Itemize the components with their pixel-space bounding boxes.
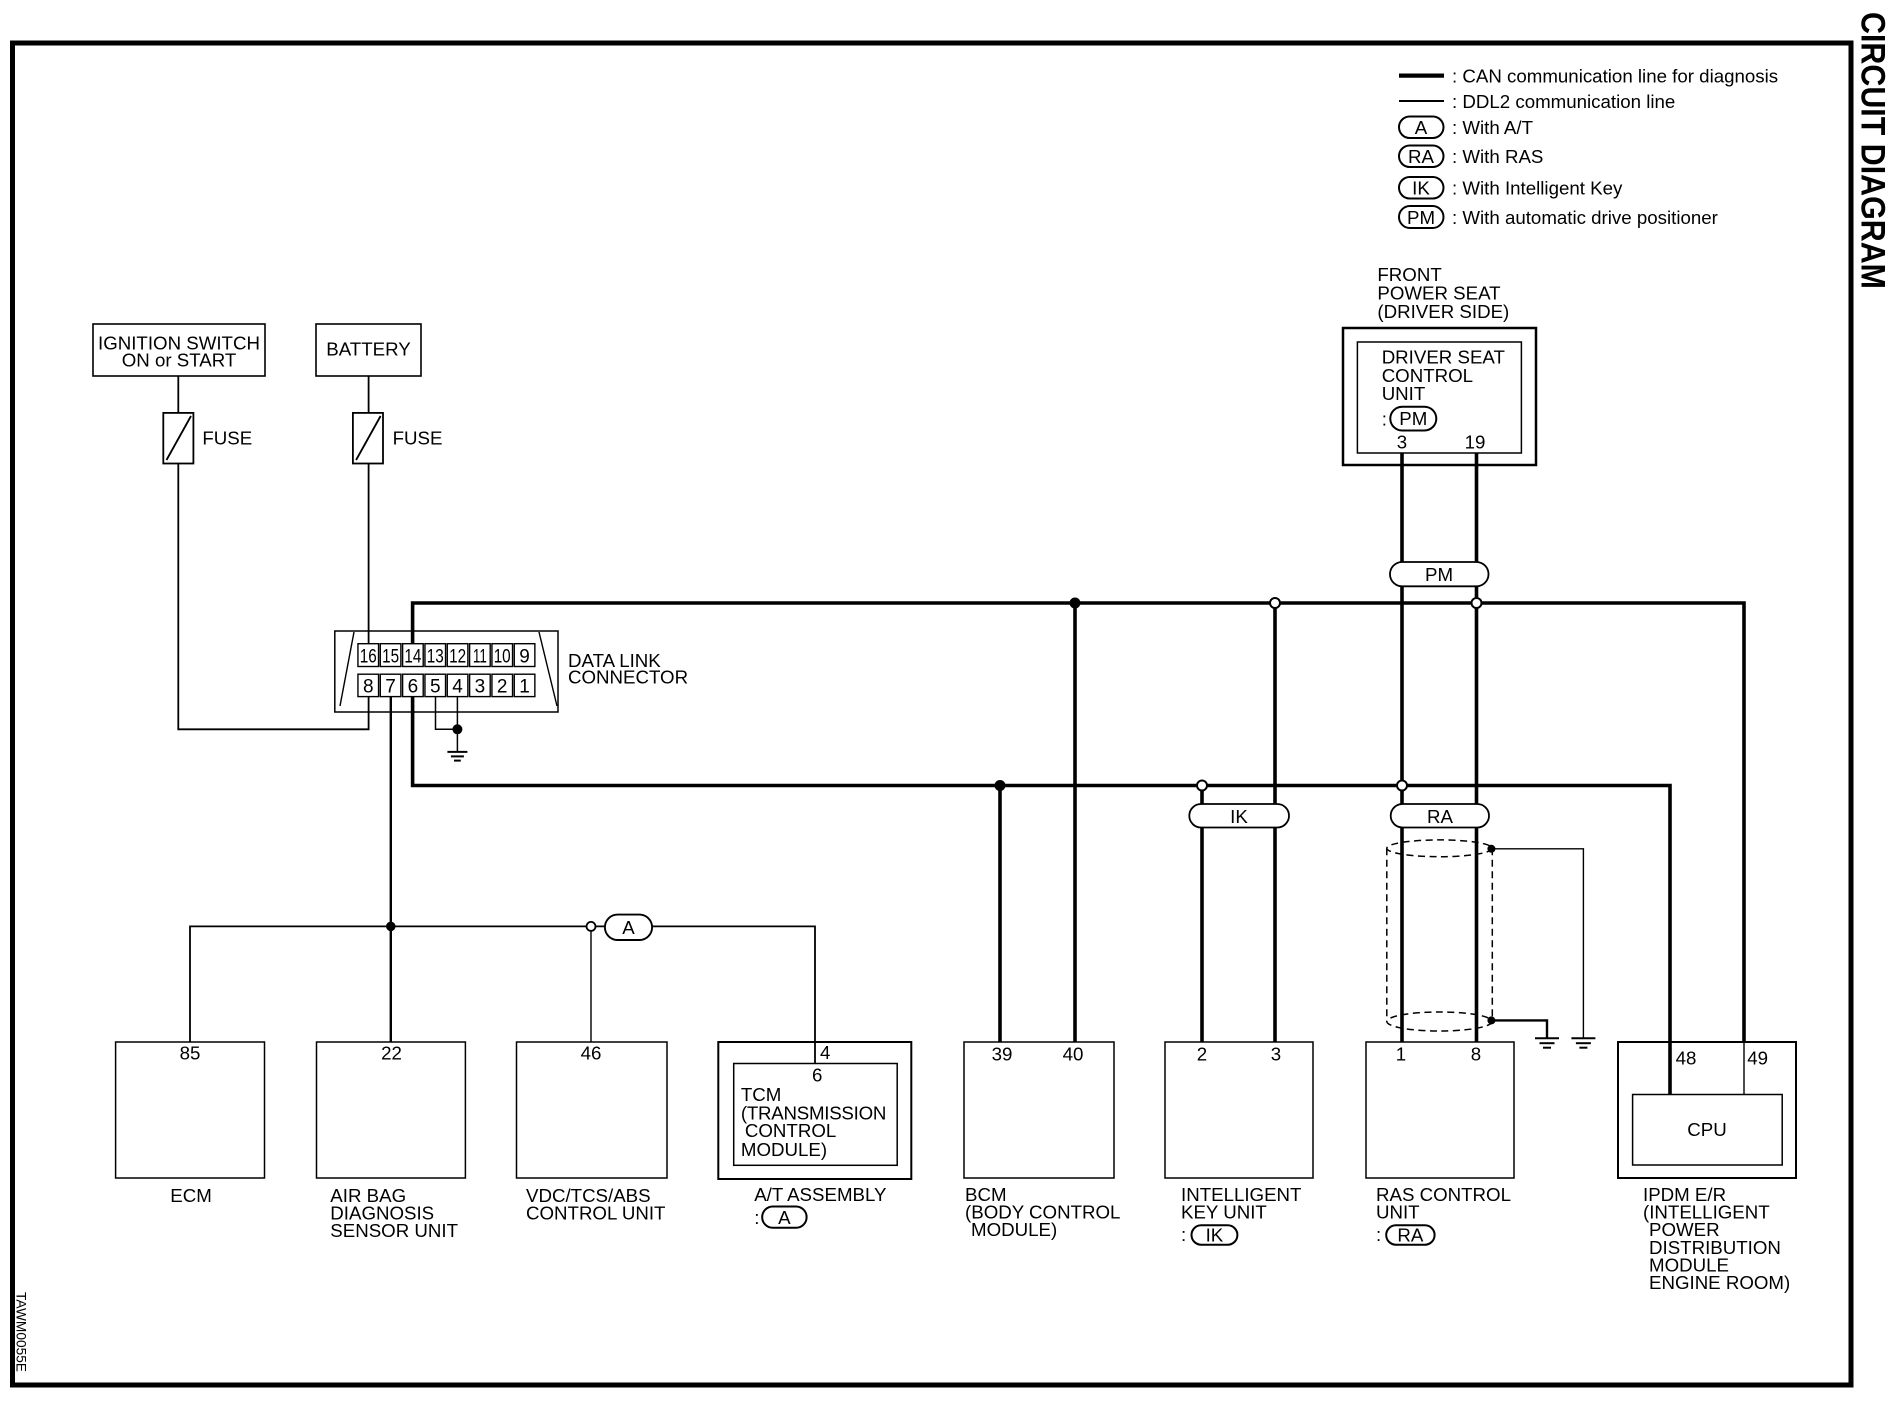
wire fuse2 down to DLC pin 16 [368, 464, 370, 644]
svg-text:PM: PM [1399, 408, 1427, 429]
shield top drain dot [1487, 845, 1495, 853]
svg-text:UNIT: UNIT [1376, 1202, 1420, 1223]
svg-text:: DDL2 communication line: : DDL2 communication line [1452, 91, 1675, 112]
front power seat outer box [1343, 328, 1536, 465]
svg-text:10: 10 [494, 646, 511, 667]
svg-text:IK: IK [1230, 806, 1248, 827]
svg-text:A: A [622, 917, 635, 938]
legend IK pill [1399, 177, 1444, 199]
DLC pin cells bottom row [358, 674, 535, 696]
wire intelligent key pin 3 [1273, 603, 1277, 1042]
svg-text:: With Intelligent Key: : With Intelligent Key [1452, 178, 1623, 199]
svg-text:11: 11 [473, 646, 487, 667]
svg-text:MODULE): MODULE) [971, 1219, 1057, 1240]
svg-text:CONTROL UNIT: CONTROL UNIT [526, 1203, 665, 1224]
svg-text:TAWM0055E: TAWM0055E [14, 1292, 29, 1372]
wire ignition to fuse [177, 376, 179, 413]
svg-text::: : [1181, 1224, 1186, 1245]
svg-text:ECM: ECM [170, 1185, 212, 1206]
open circle upper bus x1275 [1270, 598, 1280, 608]
svg-text:1: 1 [519, 676, 530, 697]
svg-text:A: A [1415, 117, 1428, 138]
svg-text:4: 4 [452, 676, 463, 697]
svg-text:13: 13 [427, 646, 444, 667]
svg-text:5: 5 [430, 676, 441, 697]
legend DDL2 line sample [1399, 100, 1444, 102]
junction dot upper bus x1075 [1070, 598, 1081, 609]
wire fuse1 down, right, up to DLC pin 8 [178, 464, 368, 730]
svg-text:14: 14 [404, 646, 421, 667]
ignition switch box [93, 324, 265, 376]
IPDM box [1618, 1042, 1796, 1178]
wire IPDM pin 48 to CPU [1668, 1042, 1672, 1095]
svg-text::: : [1376, 1224, 1381, 1245]
DLC pin numbers top row [360, 646, 530, 667]
ECM box [116, 1042, 265, 1178]
svg-text:4: 4 [820, 1042, 830, 1063]
svg-text:UNIT: UNIT [1382, 383, 1426, 404]
svg-text::: : [754, 1207, 759, 1228]
svg-text:12: 12 [449, 646, 466, 667]
wire BCM pin 39 [998, 786, 1002, 1043]
svg-text:40: 40 [1063, 1044, 1084, 1065]
PM pill on seat wires [1390, 562, 1489, 586]
svg-text:19: 19 [1465, 431, 1486, 452]
svg-text:A: A [778, 1207, 791, 1228]
svg-text:6: 6 [812, 1064, 822, 1085]
DLC pin 4 wire to ground [456, 697, 458, 752]
svg-text:(DRIVER SIDE): (DRIVER SIDE) [1377, 301, 1509, 322]
svg-text:39: 39 [992, 1044, 1013, 1065]
DDL2 line: ECM up, right to A pill, right, down to TCM pin 4 [190, 926, 605, 1042]
svg-text:A/T ASSEMBLY: A/T ASSEMBLY [754, 1184, 887, 1205]
legend PM pill [1399, 206, 1444, 228]
svg-text:1: 1 [1396, 1044, 1406, 1065]
shield cylinder around RAS wires [1387, 840, 1493, 1031]
A pill under A/T [762, 1207, 806, 1228]
wire VDC pin 46 [590, 926, 592, 1042]
ground for top drain [1571, 1038, 1595, 1048]
shield top drain wire [1491, 849, 1583, 1038]
svg-text:22: 22 [381, 1043, 402, 1064]
battery box [316, 324, 421, 376]
DLC pin cells top row [358, 644, 535, 667]
wire BCM pin 40 [1073, 603, 1077, 1042]
svg-text:IK: IK [1206, 1225, 1224, 1246]
upper CAN bus: DLC pin 14 up, right, down to IPDM pin 49 [413, 603, 1744, 1042]
DLC right slant [539, 632, 557, 706]
fuse F2 [353, 413, 383, 464]
svg-text::: : [1382, 409, 1387, 430]
svg-text:: With automatic drive positio: : With automatic drive positioner [1452, 207, 1718, 228]
svg-text:KEY UNIT: KEY UNIT [1181, 1202, 1267, 1223]
svg-text:48: 48 [1676, 1048, 1697, 1069]
wire IPDM pin 49 to CPU [1743, 1042, 1745, 1095]
svg-text:RA: RA [1397, 1225, 1423, 1246]
svg-text:IK: IK [1412, 178, 1430, 199]
shield bottom drain dot [1487, 1016, 1495, 1024]
RA pill under RAS [1386, 1225, 1434, 1244]
svg-text:ENGINE ROOM): ENGINE ROOM) [1649, 1272, 1790, 1293]
legend A pill [1399, 117, 1444, 139]
svg-text:CIRCUIT DIAGRAM: CIRCUIT DIAGRAM [1854, 12, 1892, 289]
wire DLC pin 7 to air bag pin 22 [390, 697, 392, 1042]
svg-text:ON or START: ON or START [122, 350, 237, 371]
intelligent key box [1165, 1042, 1313, 1178]
PM pill in seat box [1390, 407, 1436, 431]
open circle DDL2 x591 [587, 922, 596, 931]
TCM box [734, 1064, 898, 1166]
data link connector outline [335, 631, 558, 712]
svg-text:6: 6 [408, 676, 419, 697]
ground for bottom drain [1535, 1038, 1559, 1048]
legend CAN line sample [1399, 73, 1444, 77]
A/T assembly box [718, 1042, 911, 1179]
wire seat pin 19 to RAS pin 8 [1475, 453, 1479, 1042]
BCM box [964, 1042, 1114, 1178]
IK pill on key wires [1189, 804, 1289, 828]
svg-text:PM: PM [1425, 564, 1453, 585]
svg-text:85: 85 [180, 1043, 201, 1064]
svg-text:MODULE): MODULE) [741, 1139, 827, 1160]
svg-text:BATTERY: BATTERY [326, 339, 411, 360]
svg-text:15: 15 [382, 646, 399, 667]
svg-text:PM: PM [1407, 207, 1435, 228]
lower CAN bus: DLC pin 6 down, right, down to IPDM pin 48 [413, 697, 1670, 1042]
fuse F1 [163, 413, 193, 464]
air bag box [317, 1042, 466, 1178]
svg-text:RA: RA [1408, 146, 1434, 167]
svg-text:3: 3 [1271, 1044, 1281, 1065]
CPU box [1633, 1095, 1783, 1166]
svg-text:CONNECTOR: CONNECTOR [568, 667, 688, 688]
svg-text:: With RAS: : With RAS [1452, 146, 1543, 167]
svg-text:8: 8 [1471, 1044, 1481, 1065]
svg-text:RA: RA [1427, 806, 1453, 827]
RA pill on RAS wires [1391, 804, 1489, 828]
svg-text:16: 16 [360, 646, 377, 667]
svg-text:: CAN communication line for d: : CAN communication line for diagnosis [1452, 65, 1778, 86]
shield bottom drain wire [1491, 1020, 1547, 1037]
svg-text:3: 3 [1397, 431, 1407, 452]
A pill on DDL2 [605, 915, 652, 940]
VDC box [517, 1042, 668, 1178]
svg-text:2: 2 [1197, 1044, 1207, 1065]
DLC pin 5 wire to ground [436, 697, 458, 730]
wire battery to fuse [368, 376, 370, 413]
RAS box [1366, 1042, 1514, 1178]
svg-text:8: 8 [363, 676, 374, 697]
legend RA pill [1399, 146, 1444, 168]
DLC pin numbers bottom row [363, 676, 530, 697]
open circle upper bus x1476 [1472, 598, 1482, 608]
junction dot lower bus x1000 [995, 780, 1006, 791]
svg-text:SENSOR UNIT: SENSOR UNIT [330, 1220, 458, 1241]
svg-text:CPU: CPU [1687, 1119, 1726, 1140]
open circle lower bus x1202 [1197, 781, 1207, 791]
wire seat pin 3 to RAS pin 1 [1400, 453, 1404, 1042]
IK pill under key unit [1192, 1225, 1238, 1244]
ground below DLC [447, 752, 467, 761]
svg-text:9: 9 [519, 646, 530, 667]
svg-text:2: 2 [497, 676, 508, 697]
svg-text:: With A/T: : With A/T [1452, 117, 1533, 138]
junction dot DLC ground [452, 724, 462, 734]
svg-text:3: 3 [475, 676, 486, 697]
svg-text:7: 7 [385, 676, 396, 697]
junction dot DDL2 x391 [386, 922, 396, 932]
svg-text:49: 49 [1747, 1048, 1768, 1069]
driver seat control unit box [1357, 342, 1521, 453]
open circle lower bus x1402 [1397, 781, 1407, 791]
DLC left slant [340, 632, 354, 706]
svg-text:FUSE: FUSE [393, 428, 443, 449]
svg-text:FUSE: FUSE [202, 428, 252, 449]
svg-text:46: 46 [581, 1043, 602, 1064]
wire intelligent key pin 2 [1200, 786, 1204, 1043]
